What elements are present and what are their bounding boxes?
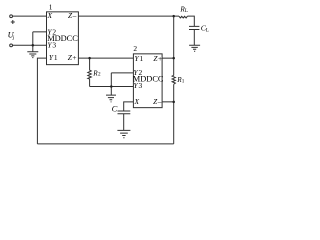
junction node Y3-2/ground xyxy=(110,85,113,88)
wire ground branch G2 xyxy=(110,73,112,95)
resistor R2 xyxy=(88,58,92,86)
svg-text:–: – xyxy=(157,97,162,106)
wire bottom rail xyxy=(37,143,173,145)
plus sign xyxy=(11,20,15,24)
wire X pin2 to capacitor C xyxy=(124,102,134,111)
wire R2 to Y3 pin2 xyxy=(90,86,134,88)
ground G4 xyxy=(189,45,200,51)
svg-text:1: 1 xyxy=(54,53,58,62)
wire RL to CL xyxy=(187,16,194,26)
wire Y1 pin1 to left rail xyxy=(37,58,46,144)
wire Z1+ to Y1 pin2 xyxy=(78,57,133,59)
junction node Z2-/bus xyxy=(172,101,175,104)
ground G1 xyxy=(27,52,38,58)
wire Y2 pin2 xyxy=(111,72,133,74)
wire Z2- to bus xyxy=(162,101,174,103)
wire right bus upper xyxy=(173,16,175,75)
svg-text:3: 3 xyxy=(52,41,56,50)
junction node Z1+/R2 xyxy=(88,57,91,60)
resistor RL xyxy=(179,16,187,18)
svg-text:+: + xyxy=(72,53,76,62)
resistor R1 xyxy=(172,75,175,84)
input terminal plus xyxy=(10,15,13,18)
wire CL to ground G4 xyxy=(193,30,195,46)
wire Z1- to RL xyxy=(78,15,179,17)
svg-text:–: – xyxy=(72,11,77,20)
wire right bus lower xyxy=(173,84,175,144)
svg-text:L: L xyxy=(185,8,188,14)
wire X1 input xyxy=(13,15,47,17)
svg-text:1: 1 xyxy=(140,54,144,63)
wire Z2+ to bus xyxy=(162,57,174,59)
wire ground branch G1 xyxy=(32,32,34,52)
junction node RL/bus xyxy=(172,15,175,17)
input terminal Uj xyxy=(10,44,13,47)
svg-text:C: C xyxy=(112,104,118,114)
MDDCC box 2 xyxy=(133,54,162,108)
junction node Uj/Y3/ground xyxy=(32,44,34,47)
svg-text:X: X xyxy=(47,11,53,20)
svg-text:L: L xyxy=(206,28,209,34)
svg-text:3: 3 xyxy=(139,81,143,90)
ground G3 xyxy=(117,130,130,137)
MDDCC box 1 xyxy=(47,12,79,65)
wire C to ground G3 xyxy=(123,114,125,131)
wire Y2 pin1 xyxy=(33,31,47,33)
junction node Z2+/bus xyxy=(172,57,175,60)
capacitor CL xyxy=(189,26,199,29)
wire Uj to Y3 pin1 xyxy=(13,44,47,46)
svg-text:X: X xyxy=(134,97,140,106)
svg-text:1: 1 xyxy=(182,78,185,84)
svg-text:2: 2 xyxy=(98,72,101,78)
capacitor C xyxy=(118,111,131,114)
svg-text:+: + xyxy=(158,54,162,63)
ground G2 xyxy=(106,95,116,102)
svg-text:2: 2 xyxy=(133,44,137,53)
